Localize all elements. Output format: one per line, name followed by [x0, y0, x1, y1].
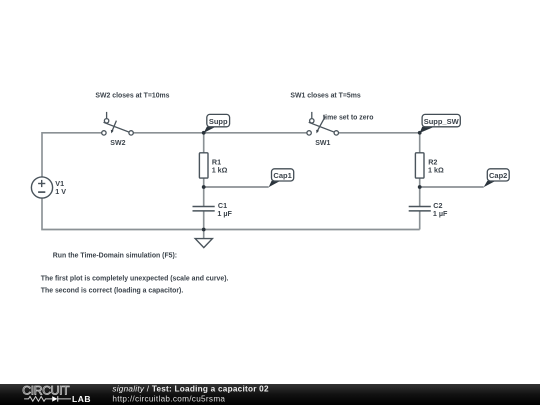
label V1 / 1 V — [55, 179, 66, 196]
SW1 actuator arrowhead — [316, 130, 319, 134]
switch SW1 — [307, 112, 339, 135]
node label Supp_SW — [420, 114, 461, 132]
junction node at Supp — [202, 131, 206, 135]
label R2 / 1 kOhm — [428, 157, 444, 174]
wire top-left from V1 up and right to SW2 left terminal — [42, 133, 102, 177]
junction node at Supp_SW — [418, 131, 422, 135]
wire node Supp_SW down to R2 top — [419, 133, 421, 153]
wire node Supp to SW1 left terminal — [204, 132, 307, 134]
svg-text:Run the Time-Domain simulation: Run the Time-Domain simulation (F5): — [53, 252, 177, 259]
svg-text:Supp: Supp — [209, 117, 228, 126]
wire R1 bottom to C1 top plate — [203, 178, 205, 206]
svg-text:Cap2: Cap2 — [489, 171, 507, 180]
wire node to Cap1 label — [204, 186, 269, 188]
label C2 / 1 uF — [433, 201, 448, 218]
svg-text:1 kΩ: 1 kΩ — [212, 166, 228, 175]
svg-text:SW2: SW2 — [110, 140, 125, 147]
wire bottom rail from V1 to C2 — [42, 198, 420, 230]
svg-text:Supp_SW: Supp_SW — [424, 117, 460, 126]
junction node at Cap1 wire — [202, 185, 206, 189]
svg-text:CIRCUIT: CIRCUIT — [22, 384, 70, 398]
svg-text:The second is correct (loading: The second is correct (loading a capacit… — [41, 287, 184, 294]
wire C2 bottom plate to bottom rail — [419, 211, 421, 230]
svg-text:time set to zero: time set to zero — [323, 114, 374, 121]
junction node at ground — [202, 228, 206, 232]
wire SW1 right terminal to node Supp_SW — [339, 132, 420, 134]
svg-text:SW1: SW1 — [315, 140, 330, 147]
svg-text:SW2 closes at T=10ms: SW2 closes at T=10ms — [95, 92, 169, 99]
wire R2 bottom to C2 top plate — [419, 178, 421, 206]
svg-text:The first plot is completely u: The first plot is completely unexpected … — [41, 275, 229, 282]
svg-text:1 kΩ: 1 kΩ — [428, 166, 444, 175]
resistor R2 — [415, 153, 424, 178]
label R1 / 1 kOhm — [212, 157, 228, 174]
node label Supp — [204, 114, 230, 132]
svg-text:1 V: 1 V — [55, 187, 66, 196]
node label Cap1 — [269, 169, 294, 187]
svg-text:signality / Test: Loading a ca: signality / Test: Loading a capacitor 02 — [112, 385, 269, 394]
capacitor C1 — [193, 207, 215, 211]
wire C1 bottom plate to bottom rail — [203, 211, 205, 230]
capacitor C2 — [409, 207, 431, 211]
svg-text:Cap1: Cap1 — [273, 171, 291, 180]
svg-text:http://circuitlab.com/cu5rsma: http://circuitlab.com/cu5rsma — [112, 395, 225, 404]
wire SW2 right terminal to node Supp — [133, 132, 203, 134]
svg-text:1 µF: 1 µF — [433, 209, 448, 218]
resistor R1 — [199, 153, 208, 178]
label C1 / 1 uF — [217, 201, 232, 218]
wire node Supp down to R1 top — [203, 133, 205, 153]
junction node at Cap2 wire — [418, 185, 422, 189]
SW2 actuator arrowhead — [111, 130, 114, 134]
wire node to Cap2 label — [420, 186, 484, 188]
node label Cap2 — [484, 169, 509, 187]
ground — [195, 230, 212, 248]
svg-text:1 µF: 1 µF — [217, 209, 232, 218]
svg-text:SW1 closes at T=5ms: SW1 closes at T=5ms — [290, 92, 360, 99]
switch SW2 — [102, 112, 134, 135]
CircuitLab logo resistor zigzag and diode — [24, 397, 71, 402]
voltage source V1 — [31, 177, 52, 198]
footer bar — [0, 384, 540, 405]
svg-text:LAB: LAB — [72, 394, 91, 404]
